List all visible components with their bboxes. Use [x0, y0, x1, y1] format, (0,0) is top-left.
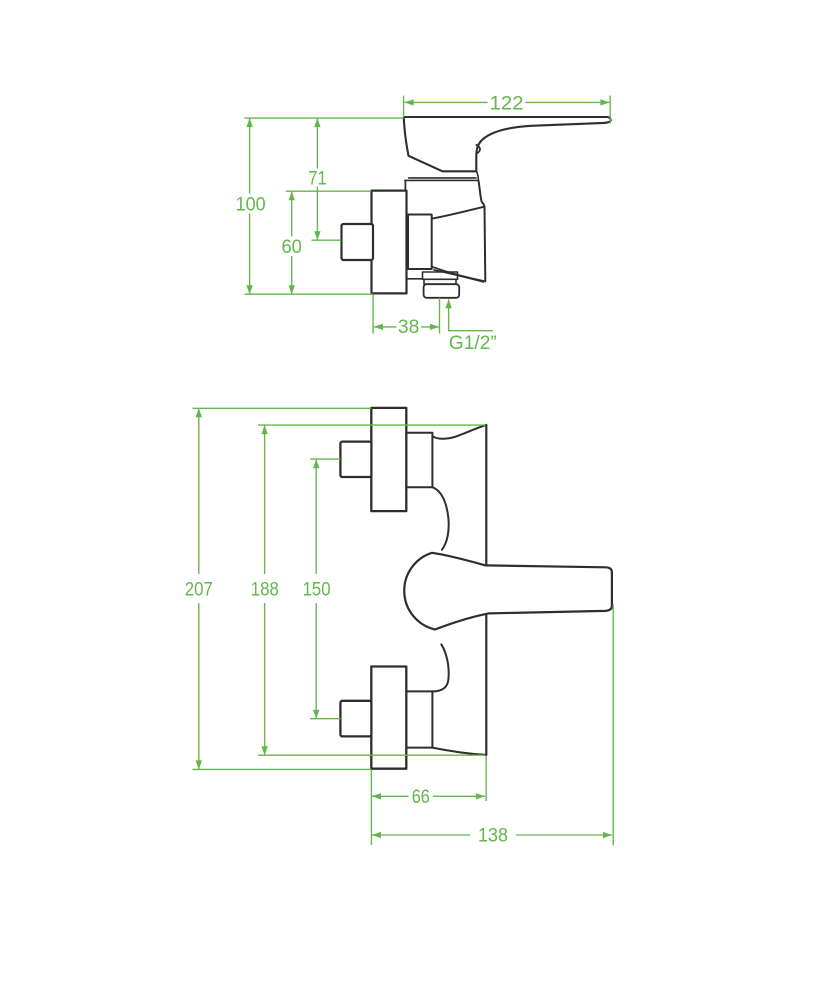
outlet ring band A — [423, 272, 458, 279]
extension line 66 right — [485, 756, 487, 801]
arrowhead G1/2 up — [445, 299, 451, 308]
dimension line 38 — [374, 326, 439, 328]
arrowhead 188 down — [261, 746, 267, 755]
body right edge curve into bell — [478, 180, 484, 206]
lower union nut (front view) — [406, 691, 432, 747]
body plate right edge upper (front view, bottom figure) — [485, 425, 487, 565]
svg-text:100: 100 — [236, 193, 266, 215]
arrowhead 38 left — [374, 324, 383, 330]
cartridge cap top line — [409, 177, 476, 179]
lower square inlet nut (front view) — [340, 701, 371, 737]
dimension line 138 — [372, 834, 612, 836]
reference line 150 top (upper nut centre) — [310, 458, 340, 460]
reference line 188 top (plate top corner) — [258, 424, 486, 426]
bell bottom lip line B — [434, 270, 484, 282]
body bottom line behind outlet — [407, 278, 423, 280]
extension line 38 left — [372, 295, 374, 334]
body left edge (side view) — [404, 180, 406, 191]
arrowhead 60 down — [289, 285, 295, 294]
dimension line 60 — [291, 191, 293, 294]
svg-text:207: 207 — [185, 578, 213, 600]
bell top arc — [432, 207, 485, 219]
reference line 150 bottom (lower nut centre) — [310, 718, 340, 720]
upper union nut (front view) — [406, 433, 432, 487]
lower wall flange (front view) — [371, 667, 406, 769]
arrowhead 100 down — [246, 285, 252, 294]
dimension line 71 — [316, 118, 318, 240]
svg-text:38: 38 — [398, 316, 420, 338]
svg-text:138: 138 — [478, 825, 508, 847]
outlet G1/2 nut — [424, 284, 460, 298]
svg-text:188: 188 — [251, 578, 279, 600]
svg-text:122: 122 — [490, 92, 524, 114]
reference line 207 top (flange top, front view) — [193, 407, 372, 409]
dimension line 150 — [315, 459, 317, 719]
body plate upper waist curve — [432, 487, 448, 550]
wall flange (side view) — [372, 191, 407, 294]
handle neck ear detail — [476, 145, 480, 154]
bell right edge — [484, 207, 487, 282]
arrowhead 100 up — [246, 118, 252, 127]
svg-text:G1/2”: G1/2” — [449, 332, 497, 354]
arrowhead 150 down — [313, 710, 319, 719]
reference line 60 top (flange top) — [286, 190, 371, 192]
bottom reference line (flange bottom) — [245, 293, 373, 295]
arrowhead 122 left — [405, 99, 414, 105]
arrowhead 122 right — [600, 99, 609, 105]
dimension line 100 — [249, 118, 251, 294]
extension line 66/138 left — [370, 770, 372, 845]
reference line 188 bottom (plate bottom corner) — [258, 754, 486, 756]
arrowhead 66 left — [372, 793, 381, 799]
bell bottom lip line A — [432, 267, 486, 282]
G1/2 leader line — [449, 299, 493, 330]
arrowhead 188 up — [261, 425, 267, 434]
svg-text:71: 71 — [308, 167, 327, 189]
body plate right edge lower — [485, 613, 487, 755]
extension line 122 left — [403, 96, 405, 118]
reference line 71 bottom (nut centre) — [312, 239, 342, 241]
upper wall flange (front view) — [371, 408, 406, 511]
body plate lower waist curve — [432, 644, 448, 691]
extension line 122 right — [609, 96, 611, 124]
cartridge collar (side view) — [408, 215, 432, 270]
extension line 138 right — [612, 604, 614, 846]
extension line 38 right — [439, 298, 441, 334]
arrowhead 138 left — [372, 832, 381, 838]
body plate top shoulder curve — [432, 425, 485, 439]
top reference line at handle top — [245, 117, 404, 119]
arrowhead 71 down — [314, 231, 320, 240]
dimension line 122 — [405, 101, 610, 103]
outlet ring band B — [424, 279, 456, 284]
dimension line 66 — [372, 795, 485, 797]
reference line 207 bottom (flange bottom) — [193, 768, 372, 770]
handle lever with bulb (front view) — [404, 553, 612, 630]
cap right side curve — [476, 171, 478, 180]
svg-text:60: 60 — [281, 236, 302, 258]
square inlet nut (side view) — [342, 224, 374, 260]
body plate bottom curve — [432, 748, 486, 755]
dimension line 188 — [264, 425, 266, 755]
svg-text:66: 66 — [412, 786, 430, 808]
handle lever (side view, top figure) — [404, 117, 611, 171]
arrowhead 71 up — [314, 118, 320, 127]
dimension line 207 — [198, 408, 200, 769]
arrowhead 138 right — [603, 832, 612, 838]
arrowhead 38 right — [430, 324, 439, 330]
upper square inlet nut (front view) — [340, 442, 371, 477]
body top line — [405, 179, 479, 181]
arrowhead 207 up — [196, 408, 202, 417]
arrowhead 60 up — [289, 191, 295, 200]
svg-text:150: 150 — [303, 578, 331, 600]
arrowhead 150 up — [313, 459, 319, 468]
arrowhead 207 down — [196, 760, 202, 769]
arrowhead 66 right — [476, 793, 485, 799]
